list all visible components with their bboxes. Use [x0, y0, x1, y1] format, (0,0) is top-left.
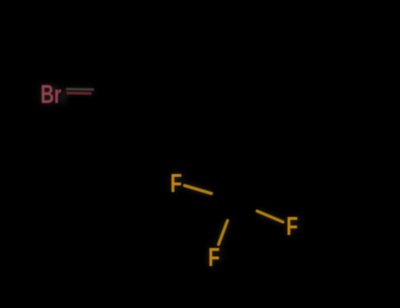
svg-text:F: F	[208, 242, 220, 272]
svg-text:F: F	[286, 211, 298, 241]
svg-text:F: F	[170, 168, 182, 198]
svg-text:Br: Br	[41, 79, 62, 109]
